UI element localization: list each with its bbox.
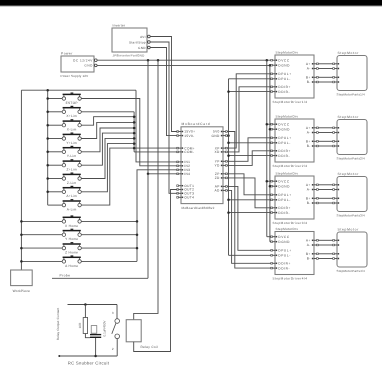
wire driver 3 A+ to motor 3 <box>319 184 333 186</box>
wire bus to A+Lim <box>48 191 63 193</box>
junction bus X+Lim <box>46 111 49 114</box>
svg-text:GND: GND <box>212 134 220 138</box>
switch Y-Lim <box>62 146 81 158</box>
driver 2 pin DPUL- <box>271 142 275 144</box>
wire bus to A-Lim <box>48 204 63 206</box>
motor 2 pin B+ <box>333 140 337 142</box>
board pin XD <box>223 151 227 153</box>
switch Z+Lim <box>62 159 81 171</box>
board pin AP <box>223 185 227 187</box>
svg-text:DVCC: DVCC <box>278 122 290 126</box>
wire 12V riser to IN4 <box>147 60 149 174</box>
wire power 12V rail horizontal <box>97 59 271 61</box>
junction bus A+Lim <box>46 191 49 194</box>
junction bus Y+Lim <box>46 137 49 140</box>
svg-text:B+: B+ <box>306 197 311 201</box>
switch Z Home <box>62 242 81 254</box>
motor 3 pin A- <box>333 189 337 191</box>
svg-text:DGND: DGND <box>278 63 290 67</box>
wire driver 2 B- to motor 2 <box>319 145 333 147</box>
svg-text:Probe: Probe <box>60 273 71 277</box>
wire driver 1 B+ to motor 1 <box>319 76 333 78</box>
svg-text:DDIR+: DDIR+ <box>278 206 291 210</box>
svg-text:DDIR+: DDIR+ <box>278 149 291 153</box>
wire minus bus branch <box>229 142 272 144</box>
wire A Home to home bus <box>81 260 137 262</box>
svg-text:OUT4: OUT4 <box>184 196 194 200</box>
board pin 15V0- <box>177 135 181 137</box>
board pin ZD <box>223 177 227 179</box>
svg-text:A+: A+ <box>306 126 311 130</box>
driver 1 pin A+ <box>314 63 318 65</box>
wire XP to driver <box>227 74 271 148</box>
wire driver 1 B- to motor 1 <box>319 81 333 83</box>
wire rail to A Home <box>21 260 62 262</box>
driver 2 pin A- <box>314 132 318 134</box>
svg-text:StepMotorDriver3/4: StepMotorDriver3/4 <box>273 221 308 225</box>
motor 4 pin B- <box>333 258 337 260</box>
svg-text:StepMotorDrv: StepMotorDrv <box>276 227 299 231</box>
junction bus ESTOP <box>46 97 49 100</box>
svg-text:XD: XD <box>215 150 220 154</box>
stepper motor M4 box <box>337 232 367 267</box>
wire YP to driver <box>227 138 271 162</box>
junction 12V rail <box>266 59 269 62</box>
svg-text:DPUL-: DPUL- <box>278 198 291 202</box>
wire relay coil bottom to OUT2 <box>134 190 178 352</box>
board pin OUT4 <box>177 196 181 198</box>
driver 1 pin A- <box>314 68 318 70</box>
svg-text:A-: A- <box>307 67 311 71</box>
svg-text:StepMotor: StepMotor <box>338 51 360 55</box>
junction bus A+Lim <box>133 142 136 145</box>
node snubber bottom junction <box>94 355 97 358</box>
svg-text:0.1uF/400V: 0.1uF/400V <box>103 320 107 337</box>
wire 12V rail branch to driver DVCC <box>267 180 271 182</box>
wire bus to Y+Lim <box>48 138 63 140</box>
wire GND bus from board <box>227 135 229 137</box>
svg-text:10R: 10R <box>78 322 82 328</box>
wire 5V0 to driver4 DDIR- <box>227 132 271 269</box>
wire Y-Lim riser <box>81 128 134 152</box>
wire driver 2 A- to motor 2 <box>319 132 333 134</box>
wire minus bus branch <box>229 199 272 201</box>
motor 1 pin B+ <box>333 76 337 78</box>
driver 2 pin B+ <box>314 140 318 142</box>
wire IN4 stub <box>148 173 177 175</box>
wire 12V vertical rail <box>266 60 268 237</box>
driver 3 pin A+ <box>314 184 318 186</box>
motor 2 pin A+ <box>333 127 337 129</box>
svg-text:A+: A+ <box>306 239 311 243</box>
driver 3 pin DDIR- <box>271 212 275 214</box>
wire AD to driver <box>227 190 271 263</box>
driver 2 pin DDIR- <box>271 155 275 157</box>
wire bus to Z-Lim <box>48 178 63 180</box>
driver 1 pin DVCC <box>271 59 275 61</box>
wire X Home to home bus <box>81 220 137 222</box>
junction rail Y Home <box>20 233 23 236</box>
switch A-Lim <box>62 199 81 211</box>
motor 4 pin A+ <box>333 239 337 241</box>
driver 2 pin DDIR+ <box>271 150 275 152</box>
svg-text:StepMotorDriver2/4: StepMotorDriver2/4 <box>273 164 308 168</box>
motor 4 pin B+ <box>333 253 337 255</box>
svg-text:DDIR-: DDIR- <box>278 266 290 270</box>
board pin AD <box>223 189 227 191</box>
driver 1 pin B- <box>314 81 318 83</box>
board pin IN2 <box>177 165 181 167</box>
svg-text:Z-Lim: Z-Lim <box>67 181 77 185</box>
junction minus bus <box>227 154 230 157</box>
svg-text:DDIR-: DDIR- <box>278 154 290 158</box>
stepper driver U4 box <box>275 119 314 162</box>
wire X-Lim riser <box>81 117 134 126</box>
driver 2 pin DPUL+ <box>271 137 275 139</box>
svg-text:DDIR+: DDIR+ <box>278 85 291 89</box>
svg-text:B-: B- <box>307 144 311 148</box>
board pin COM- <box>177 151 181 153</box>
wire contact bottom <box>116 339 118 356</box>
workpiece box <box>11 270 33 286</box>
motor 3 pin B+ <box>333 197 337 199</box>
switch A Home <box>62 255 81 267</box>
wire snubber bottom <box>60 355 117 357</box>
svg-text:RC Snubber Circuit: RC Snubber Circuit <box>68 361 110 366</box>
driver 3 pin B- <box>314 202 318 204</box>
wire rail to Z Home <box>21 247 62 249</box>
switch common bus vertical wire <box>47 90 49 205</box>
svg-text:DGND: DGND <box>278 240 290 244</box>
wire GND rail branch to driver DGND <box>270 185 271 187</box>
junction bus Y-Lim <box>46 151 49 154</box>
wire power GND rail horizontal <box>97 64 271 66</box>
board pin YP <box>223 160 227 162</box>
wire probe riser <box>147 174 149 278</box>
driver 3 pin DPUL- <box>271 199 275 201</box>
left rail vertical wire <box>20 90 22 270</box>
stepper motor M1 box <box>337 56 367 91</box>
wire minus bus branch <box>229 91 272 93</box>
svg-text:Y-Lim: Y-Lim <box>67 154 77 158</box>
wire ZP to driver <box>227 174 271 195</box>
svg-text:DVCC: DVCC <box>278 235 290 239</box>
svg-text:MoBoardCardBOBv2: MoBoardCardBOBv2 <box>182 206 215 210</box>
driver 2 pin DVCC <box>271 123 275 125</box>
wire resistor to capacitor <box>85 334 90 338</box>
lim collector bus vertical wire <box>133 112 135 152</box>
wire driver 2 A+ to motor 2 <box>319 127 333 129</box>
driver 3 pin DGND <box>271 185 275 187</box>
wire GND rail branch to driver DGND <box>270 128 271 130</box>
svg-text:ZD: ZD <box>215 176 220 180</box>
svg-text:StepMotorParts1/4: StepMotorParts1/4 <box>337 92 366 96</box>
relay contact S1 <box>115 319 120 324</box>
motor 2 pin B- <box>333 145 337 147</box>
driver 1 pin DPUL- <box>271 78 275 80</box>
svg-text:ESTOP: ESTOP <box>66 101 78 105</box>
svg-text:Z+Lim: Z+Lim <box>66 168 76 172</box>
junction 12V to IN4 riser <box>147 59 150 62</box>
junction bus A-Lim <box>133 147 136 150</box>
wire rail to Y Home <box>21 234 62 236</box>
driver 3 pin DPUL+ <box>271 194 275 196</box>
wire minus bus branch <box>229 212 272 214</box>
svg-text:GND: GND <box>138 46 146 50</box>
junction bus X-Lim <box>46 124 49 127</box>
board pin YD <box>223 164 227 166</box>
svg-text:DPUL-: DPUL- <box>278 77 291 81</box>
svg-text:StepMotorParts2/4: StepMotorParts2/4 <box>337 156 366 160</box>
wire snubber resistor top lead <box>84 305 86 318</box>
svg-text:Y Home: Y Home <box>65 237 78 241</box>
svg-text:DPUL+: DPUL+ <box>278 249 291 253</box>
driver 4 pin DDIR- <box>271 267 275 269</box>
svg-text:StepMotorParts4/4: StepMotorParts4/4 <box>337 269 366 273</box>
svg-text:StepMotorDrv: StepMotorDrv <box>276 51 299 55</box>
driver 4 pin A- <box>314 244 318 246</box>
board pin COM+ <box>177 147 181 149</box>
svg-text:DPUL-: DPUL- <box>278 141 291 145</box>
wire driver 4 A- to motor 4 <box>319 244 333 246</box>
svg-text:15V0-: 15V0- <box>184 134 194 138</box>
junction rail Z Home <box>20 247 23 250</box>
wire driver 2 B+ to motor 2 <box>319 140 333 142</box>
junction minus bus <box>227 199 230 202</box>
driver 4 pin DVCC <box>271 236 275 238</box>
svg-text:Z Home: Z Home <box>65 251 78 255</box>
driver 1 pin DPUL+ <box>271 73 275 75</box>
wire minus bus vertical <box>228 79 230 256</box>
svg-text:AD: AD <box>215 189 220 193</box>
node snubber top junction <box>84 303 87 306</box>
wire driver 4 B- to motor 4 <box>319 258 333 260</box>
switch X+Lim <box>62 106 81 118</box>
wire ZD to driver <box>227 178 271 208</box>
svg-text:A-: A- <box>307 243 311 247</box>
capacitor C1 body <box>91 326 97 334</box>
junction GND rail branch <box>269 185 272 188</box>
relay coil K1 box <box>126 320 141 342</box>
switch Y+Lim <box>62 133 81 145</box>
junction home bus Y Home <box>136 233 139 236</box>
wire AP to driver <box>227 186 271 250</box>
power supply box <box>61 56 94 72</box>
junction GND rail branch <box>269 128 272 131</box>
wire contact drop <box>116 305 118 319</box>
terminal snubber bottom left <box>58 355 60 357</box>
junction 12V rail branch <box>266 180 269 183</box>
wire bus to Z+Lim <box>48 164 63 166</box>
wire Y+Lim riser <box>81 122 134 138</box>
svg-text:StepMotor: StepMotor <box>338 172 360 176</box>
junction bus X-Lim <box>133 115 136 118</box>
wire ESTOP output to IN2 <box>81 99 177 166</box>
motor 3 pin A+ <box>333 184 337 186</box>
board pin IN3 <box>177 169 181 171</box>
wire minus bus branch <box>229 155 272 157</box>
svg-text:StepMotor: StepMotor <box>338 228 360 232</box>
svg-text:JP8InverterPortGND: JP8InverterPortGND <box>113 54 146 58</box>
svg-text:StepMotorDriver1/4: StepMotorDriver1/4 <box>273 100 308 104</box>
wire X+Lim to bus <box>81 111 134 113</box>
wire YD to driver <box>227 151 271 166</box>
svg-text:DDIR-: DDIR- <box>278 90 290 94</box>
svg-text:DGND: DGND <box>278 127 290 131</box>
svg-text:A-: A- <box>307 188 311 192</box>
junction bus Z-Lim <box>46 177 49 180</box>
svg-text:B-: B- <box>307 257 311 261</box>
driver 4 pin DPUL- <box>271 254 275 256</box>
switch X-Lim <box>62 119 81 131</box>
svg-text:Relay Output Contact: Relay Output Contact <box>56 308 60 341</box>
junction bus Z+Lim <box>46 164 49 167</box>
switch Y Home <box>62 229 81 241</box>
wire driver 1 A+ to motor 1 <box>319 63 333 65</box>
junction home bus X Home <box>136 220 139 223</box>
svg-text:GND: GND <box>84 64 93 68</box>
driver 4 pin B+ <box>314 253 318 255</box>
svg-text:X+Lim: X+Lim <box>66 114 77 118</box>
motor 2 pin A- <box>333 132 337 134</box>
motor 1 pin A+ <box>333 63 337 65</box>
left rail wire (top) <box>21 89 136 91</box>
svg-text:Power: Power <box>61 52 73 56</box>
junction rail A Home <box>20 260 23 263</box>
junction bus Z-Lim <box>133 137 136 140</box>
motor 1 pin A- <box>333 68 337 70</box>
top black border bar <box>0 0 382 5</box>
wire Z+Lim riser <box>81 133 134 165</box>
wire A+Lim riser <box>81 144 134 192</box>
junction bus Y+Lim <box>133 121 136 124</box>
svg-text:COM-: COM- <box>184 150 194 154</box>
wire relay contact top <box>68 304 118 306</box>
driver 1 pin DDIR- <box>271 91 275 93</box>
wire minus bus branch <box>229 254 272 256</box>
driver 4 pin DPUL+ <box>271 249 275 251</box>
wire Y Home to home bus <box>81 234 137 236</box>
svg-text:B+: B+ <box>306 252 311 256</box>
board pin 5V0 <box>223 131 227 133</box>
board pin OUT1 <box>177 185 181 187</box>
driver 1 pin B+ <box>314 76 318 78</box>
wire XD to driver <box>227 87 271 152</box>
wire A-Lim riser to COM+ <box>81 148 177 205</box>
svg-text:DDIR-: DDIR- <box>278 211 290 215</box>
wire driver 4 A+ to motor 4 <box>319 239 333 241</box>
home bus vertical wire to IN3 <box>137 170 177 262</box>
svg-text:Inverter: Inverter <box>113 24 126 28</box>
wire Z Home to home bus <box>81 247 137 249</box>
svg-text:IN4: IN4 <box>184 172 190 176</box>
wire rail-top to IN1 vertical <box>136 90 177 162</box>
svg-text:X Home: X Home <box>65 224 78 228</box>
svg-text:DPUL+: DPUL+ <box>278 193 291 197</box>
driver 1 pin DDIR+ <box>271 86 275 88</box>
inverter U1 box <box>112 28 147 52</box>
board pin IN4 <box>177 173 181 175</box>
svg-text:A+: A+ <box>306 62 311 66</box>
junction bus Z+Lim <box>133 132 136 135</box>
junction GND rail <box>269 64 272 67</box>
stepper driver U6 box <box>275 232 314 275</box>
junction 12V to relay riser <box>157 59 160 62</box>
wire bus to ESTOP <box>48 98 63 100</box>
stepper driver U5 box <box>275 176 314 219</box>
switch Z-Lim <box>62 173 81 185</box>
motor 1 pin B- <box>333 81 337 83</box>
driver 1 pin DGND <box>271 64 275 66</box>
svg-text:StepMotorDrv: StepMotorDrv <box>276 115 299 119</box>
capacitor C1 plates <box>90 334 101 335</box>
wire minus bus branch <box>229 78 272 80</box>
wire driver 4 B+ to motor 4 <box>319 253 333 255</box>
wire bus to X+Lim <box>48 111 63 113</box>
svg-text:MoBoardCard: MoBoardCard <box>182 122 211 126</box>
svg-text:StepMotorParts3/4: StepMotorParts3/4 <box>337 213 366 217</box>
wire bus to Y-Lim <box>48 151 63 153</box>
svg-text:DVCC: DVCC <box>278 179 290 183</box>
wire driver 1 A- to motor 1 <box>319 68 333 70</box>
wire Z-Lim riser <box>81 138 134 178</box>
board pin GND <box>223 135 227 137</box>
node GND bus junction <box>227 134 230 137</box>
svg-text:DGND: DGND <box>278 184 290 188</box>
wire inverter GND to 15V0- <box>150 48 177 136</box>
junction home bus Z Home <box>136 247 139 250</box>
junction bus top <box>46 89 49 92</box>
svg-text:B-: B- <box>307 201 311 205</box>
wire driver 3 B+ to motor 3 <box>319 197 333 199</box>
driver 4 pin DDIR+ <box>271 262 275 264</box>
breakout board U2 box <box>181 127 223 204</box>
motor 3 pin B- <box>333 202 337 204</box>
driver 3 pin A- <box>314 189 318 191</box>
driver 3 pin DVCC <box>271 180 275 182</box>
driver 2 pin DGND <box>271 128 275 130</box>
board pin 15V0+ <box>177 131 181 133</box>
svg-text:A-Lim: A-Lim <box>67 208 77 212</box>
wire 12V riser to relay coil top <box>134 60 158 320</box>
svg-text:DC 12/24V: DC 12/24V <box>73 59 93 63</box>
driver 4 pin B- <box>314 258 318 260</box>
resistor R1 10R <box>83 318 87 334</box>
switch ESTOP <box>62 93 81 105</box>
wire capacitor bottom lead <box>95 338 97 356</box>
svg-text:A+: A+ <box>306 183 311 187</box>
wire bus to X-Lim <box>48 124 63 126</box>
svg-text:B-: B- <box>307 80 311 84</box>
junction minus bus <box>227 211 230 214</box>
junction 12V rail branch <box>266 123 269 126</box>
motor 4 pin A- <box>333 244 337 246</box>
svg-text:A+Lim: A+Lim <box>66 194 77 198</box>
wire inverter AVI to 15V0+ <box>150 37 177 132</box>
wire 12V rail branch to driver DVCC <box>267 236 271 238</box>
board pin OUT2 <box>177 189 181 191</box>
svg-text:Relay Coil: Relay Coil <box>141 345 159 349</box>
board pin IN1 <box>177 161 181 163</box>
driver 2 pin B- <box>314 145 318 147</box>
node IN4 probe junction <box>147 173 150 176</box>
svg-text:DVCC: DVCC <box>278 58 290 62</box>
driver 2 pin A+ <box>314 127 318 129</box>
svg-text:DPUL+: DPUL+ <box>278 136 291 140</box>
wire GND rail branch to driver DGND <box>270 241 271 243</box>
switch A+Lim <box>62 186 81 198</box>
junction bus Y-Lim <box>133 127 136 130</box>
